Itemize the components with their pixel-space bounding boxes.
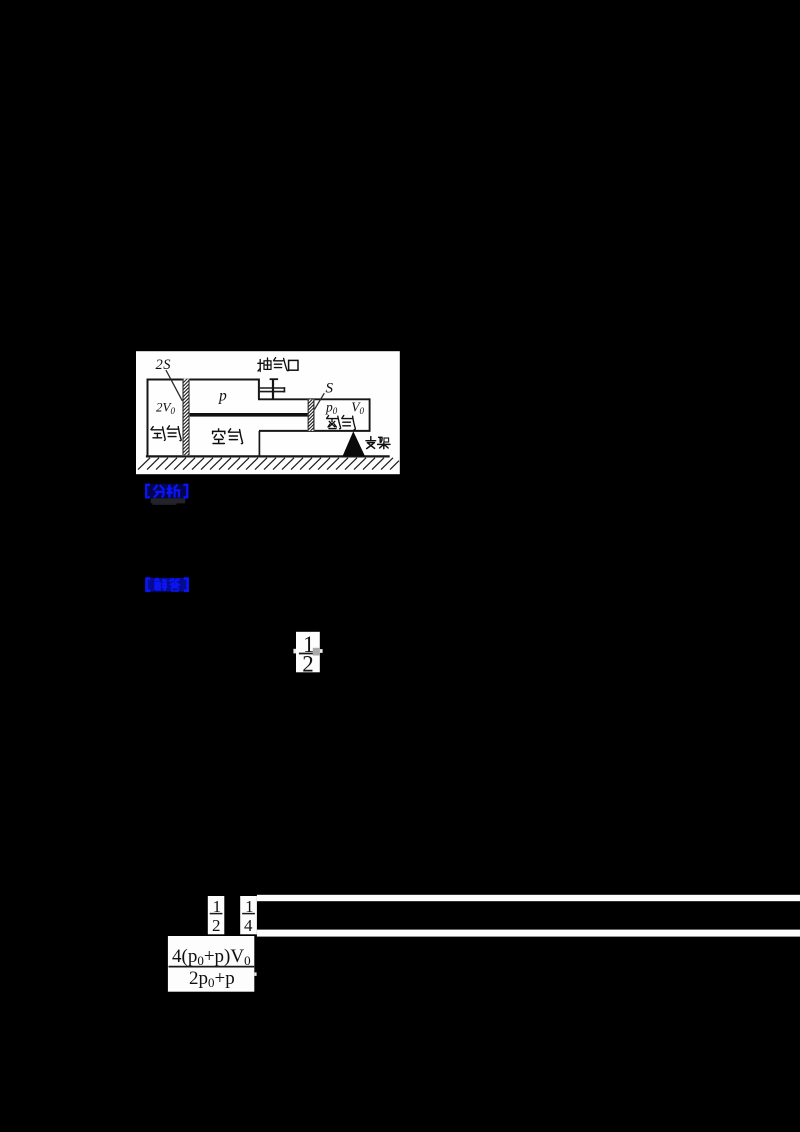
long white rule 2	[257, 930, 800, 937]
formula image: 1/2 with grey handle (answer blank)	[293, 632, 322, 677]
text 空气 (air)	[213, 429, 243, 444]
blue label 1 【分析】	[145, 484, 189, 498]
leader line for 2S	[166, 370, 182, 401]
step-down wall at pump	[258, 379, 260, 400]
pump suction slot	[260, 387, 286, 392]
base left wall	[258, 431, 260, 456]
piston rod (thick)	[190, 413, 308, 417]
small cylinder right end wall	[369, 398, 371, 431]
svg-text:2S: 2S	[156, 357, 172, 373]
cylinder top edge (large section)	[147, 379, 259, 381]
ground line	[146, 455, 390, 457]
text 氢气 (hydrogen)	[151, 426, 181, 441]
svg-text:2: 2	[302, 652, 314, 677]
svg-text:2: 2	[212, 916, 221, 935]
formula image: 1/2	[208, 896, 225, 935]
formula image: 1/4	[240, 896, 257, 935]
formula image: 4(p0+p)V0 over 2p0+p	[168, 936, 257, 992]
long white rule 1	[257, 895, 800, 901]
svg-text:4(p0+p)V0: 4(p0+p)V0	[172, 946, 251, 968]
blue label 2 【解答】	[145, 578, 189, 592]
svg-text:4: 4	[244, 916, 253, 935]
support triangle (black)	[343, 431, 366, 456]
cylinder left wall	[147, 379, 149, 457]
text 氮气 (nitrogen)	[327, 415, 356, 429]
text 抽气口 (pump port)	[258, 358, 298, 372]
svg-text:p: p	[218, 388, 227, 405]
ground hatching	[138, 458, 399, 470]
svg-text:S: S	[326, 381, 334, 397]
pump tube with cap	[270, 379, 279, 399]
text 支架 (support)	[366, 437, 390, 449]
faint grey residue under label 1	[151, 498, 186, 505]
diagram white background	[136, 351, 400, 474]
leader line for S	[314, 393, 324, 409]
small-section top edge	[258, 398, 370, 400]
raised base shelf line	[259, 430, 370, 432]
